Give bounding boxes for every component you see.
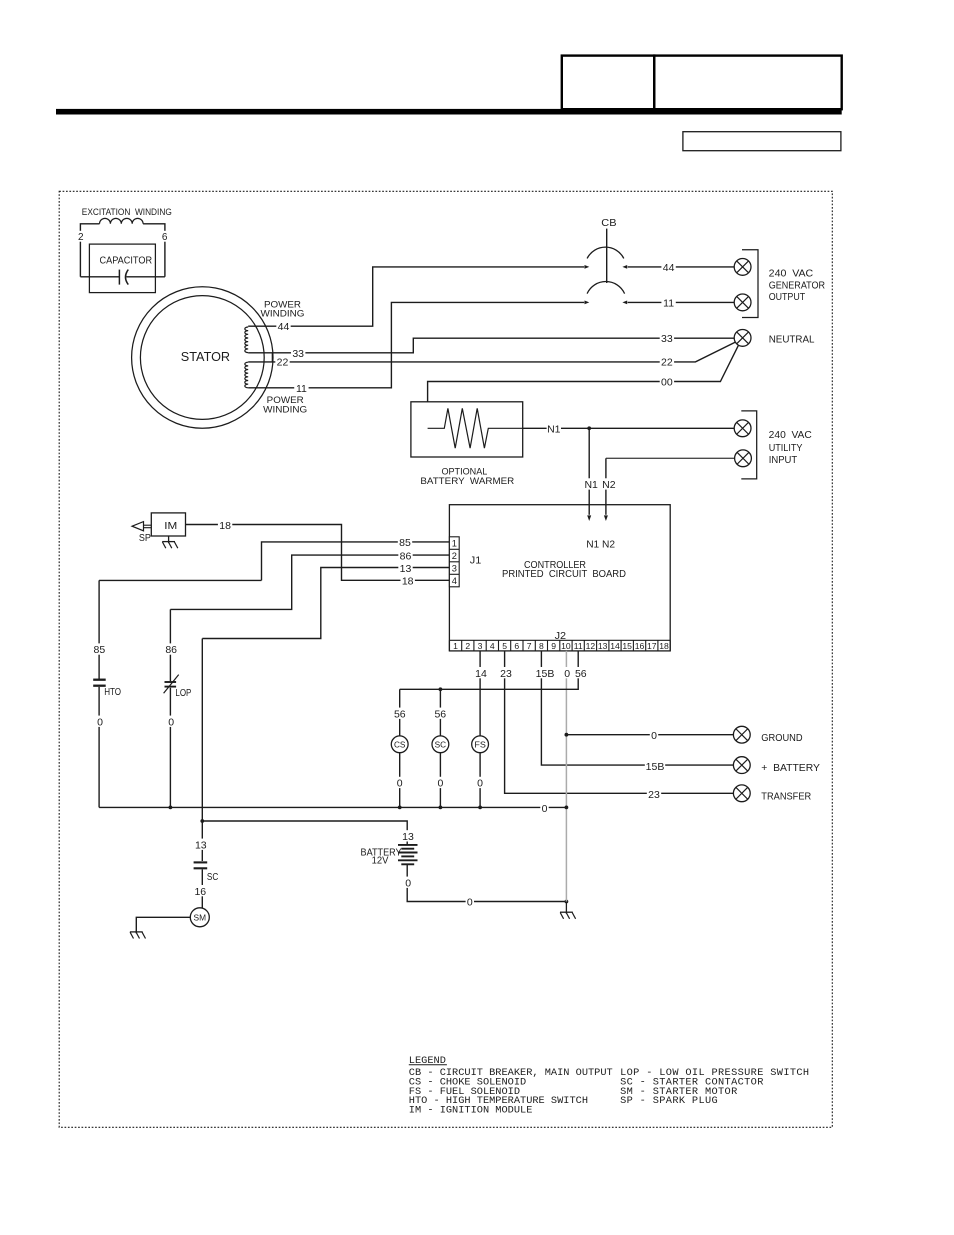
- wire N1 drop label: [584, 478, 598, 489]
- wire 16 to starter motor: [201, 869, 203, 908]
- svg-text:18: 18: [659, 641, 669, 651]
- terminal 240VAC gen line 11: [734, 294, 751, 311]
- svg-text:17: 17: [647, 641, 657, 651]
- svg-text:15B: 15B: [536, 668, 555, 680]
- svg-text:33: 33: [292, 348, 304, 360]
- svg-text:2: 2: [452, 551, 457, 561]
- wire N2 drop label: [602, 478, 616, 489]
- CB contact arrow 44 right: [622, 265, 627, 269]
- svg-text:OUTPUT: OUTPUT: [769, 292, 806, 303]
- wire 56 to SC: [439, 689, 441, 736]
- svg-text:85: 85: [399, 537, 411, 549]
- svg-text:16: 16: [635, 641, 645, 651]
- svg-text:0: 0: [168, 716, 174, 728]
- svg-text:8: 8: [539, 641, 544, 651]
- node 0 bus SC: [439, 806, 443, 810]
- svg-text:33: 33: [661, 333, 673, 345]
- svg-text:LEGEND: LEGEND: [409, 1055, 446, 1067]
- svg-text:15: 15: [622, 641, 632, 651]
- wire 0 bus label: [540, 802, 548, 813]
- wire 14 label: [474, 667, 488, 678]
- svg-text:0: 0: [405, 877, 411, 889]
- diagram dashed border: [59, 191, 832, 1127]
- wire N2 horizontal: [606, 457, 735, 459]
- fuel solenoid FS: [472, 736, 489, 753]
- wire 0 J2-10 gray drop: [565, 651, 567, 902]
- svg-text:N1: N1: [584, 479, 598, 491]
- svg-text:0: 0: [477, 778, 483, 790]
- node N1 junction: [587, 426, 591, 430]
- svg-text:240 VAC: 240 VAC: [769, 269, 814, 280]
- wire SM to ground: [136, 917, 190, 932]
- svg-text:J1: J1: [470, 554, 482, 566]
- terminal NEUTRAL: [734, 330, 751, 347]
- starter motor SM: [190, 908, 209, 927]
- wire 13 contact label: [194, 839, 208, 850]
- wire 18 label B: [401, 575, 415, 586]
- node 0 bus end: [565, 806, 569, 810]
- svg-text:IM: IM: [164, 521, 177, 532]
- connector J2: [449, 640, 670, 651]
- CB contact arrow 11 right: [622, 301, 627, 305]
- legend right column: [620, 1067, 809, 1107]
- wire 11 label A: [294, 382, 308, 393]
- svg-text:+ BATTERY: + BATTERY: [761, 763, 820, 774]
- svg-text:22: 22: [277, 357, 289, 369]
- svg-text:6: 6: [162, 232, 168, 243]
- svg-text:EXCITATION WINDING: EXCITATION WINDING: [82, 207, 172, 218]
- bracket utility input: [741, 411, 756, 479]
- switch LOP: [164, 675, 179, 694]
- wire LOP to 0 bus: [169, 688, 171, 808]
- svg-text:FS: FS: [474, 739, 486, 749]
- ground at SM: [130, 931, 146, 939]
- power winding coil top: [245, 327, 248, 353]
- wire 85 vertical label: [92, 643, 106, 654]
- wire 86 down to LOP: [169, 609, 171, 681]
- wire 15B label A: [535, 667, 555, 678]
- circuit breaker CB bottom contact arc: [587, 282, 625, 294]
- wire battery negative: [407, 864, 566, 901]
- wire HTO to 0 bus: [98, 687, 100, 808]
- svg-text:12: 12: [586, 641, 596, 651]
- arrow N1 into board: [587, 515, 591, 521]
- wire N1 drop: [588, 428, 590, 515]
- wire 23 label B: [647, 788, 661, 799]
- optional battery warmer box: [411, 402, 523, 457]
- stator outer circle: [132, 287, 273, 428]
- svg-text:0: 0: [564, 668, 570, 680]
- wire LOP 0 label: [167, 716, 175, 727]
- svg-text:13: 13: [402, 831, 414, 843]
- node 0 bus LOP: [169, 806, 173, 810]
- wire excitation right: [143, 224, 165, 277]
- wire 18 from ignition module: [186, 525, 450, 581]
- wire 56 to CS: [399, 689, 401, 736]
- spark plug SP arrow: [132, 522, 151, 531]
- svg-text:2: 2: [465, 641, 470, 651]
- svg-text:44: 44: [663, 262, 675, 274]
- svg-text:UTILITY: UTILITY: [769, 443, 803, 454]
- wire 13 battery label: [401, 830, 415, 841]
- wire CS 0 label: [396, 777, 404, 788]
- header rule: [56, 109, 842, 115]
- svg-text:0: 0: [437, 778, 443, 790]
- svg-text:00: 00: [661, 376, 673, 388]
- svg-text:13: 13: [598, 641, 608, 651]
- wire 44: [248, 267, 584, 326]
- svg-text:0: 0: [651, 730, 657, 742]
- capacitor C1: [119, 270, 128, 285]
- svg-text:11: 11: [663, 298, 674, 310]
- svg-text:TRANSFER: TRANSFER: [761, 791, 811, 802]
- choke solenoid CS: [391, 736, 408, 753]
- node 13 junction: [200, 819, 204, 823]
- wire 11 label B: [661, 297, 675, 308]
- wire SC 0 label: [436, 777, 444, 788]
- wire 11: [248, 302, 584, 387]
- svg-text:0: 0: [467, 896, 473, 908]
- terminal +BATTERY: [733, 757, 750, 774]
- legend left column: [409, 1067, 613, 1116]
- wire 15B J2-8: [541, 651, 733, 765]
- connector J1: [449, 537, 459, 587]
- wire 86 label: [398, 550, 412, 561]
- wire 13 label: [398, 562, 412, 573]
- wire battery 0 label B: [466, 895, 474, 906]
- svg-text:CAPACITOR: CAPACITOR: [100, 255, 153, 266]
- terminal 240VAC gen line 44: [734, 259, 751, 276]
- wire 33 label B: [660, 332, 674, 343]
- node 0 ground-wire junction: [565, 733, 569, 737]
- svg-text:56: 56: [394, 708, 406, 720]
- wire 14 J2-3 to FS: [479, 651, 481, 736]
- wire 0 bus horizontal: [99, 806, 566, 808]
- terminal 240VAC utility 2: [735, 450, 752, 467]
- svg-text:1: 1: [453, 641, 458, 651]
- controller printed circuit board U1: [449, 505, 670, 651]
- ground bottom right: [560, 902, 576, 919]
- svg-text:GROUND: GROUND: [761, 733, 802, 744]
- svg-text:7: 7: [527, 641, 532, 651]
- svg-text:0: 0: [542, 803, 548, 815]
- wire 13 down: [201, 639, 203, 862]
- svg-text:56: 56: [575, 668, 587, 680]
- svg-text:5: 5: [502, 641, 507, 651]
- svg-text:BATTERY WARMER: BATTERY WARMER: [420, 476, 514, 487]
- svg-text:CB: CB: [601, 217, 616, 229]
- wire N1 label: [547, 423, 561, 434]
- wire excitation left: [80, 224, 99, 277]
- wire 56 CS label: [393, 708, 407, 719]
- svg-text:85: 85: [94, 644, 106, 656]
- wire battery 0 label A: [404, 877, 412, 888]
- svg-text:56: 56: [434, 708, 446, 720]
- contact SC starter contactor: [194, 862, 208, 868]
- circuit breaker CB stem: [606, 229, 608, 283]
- svg-text:18: 18: [219, 520, 231, 532]
- svg-text:CS: CS: [394, 739, 406, 749]
- arrow N2 into board: [604, 515, 608, 521]
- svg-text:GENERATOR: GENERATOR: [769, 281, 825, 292]
- svg-text:11: 11: [574, 641, 583, 651]
- node 0 bus CS: [398, 806, 402, 810]
- wire 86 vertical label: [164, 643, 178, 654]
- svg-text:SM: SM: [194, 913, 207, 923]
- svg-text:11: 11: [296, 383, 307, 395]
- wire FS to 0 bus: [479, 753, 481, 808]
- wire 0 label B: [650, 729, 658, 740]
- svg-text:13: 13: [400, 563, 412, 575]
- svg-text:LOP: LOP: [175, 688, 191, 699]
- circuit breaker CB top contact arc: [587, 247, 624, 258]
- wire 56 J2-11: [400, 651, 579, 689]
- svg-text:N1: N1: [547, 423, 561, 435]
- svg-text:240 VAC: 240 VAC: [769, 430, 812, 441]
- wire 18 label A: [218, 519, 232, 530]
- svg-text:0: 0: [397, 778, 403, 790]
- wire 33 label A: [291, 347, 305, 358]
- wire N1: [523, 427, 735, 429]
- svg-text:23: 23: [500, 668, 512, 680]
- header box left: [562, 56, 654, 110]
- svg-text:1: 1: [452, 539, 457, 549]
- svg-text:PRINTED CIRCUIT BOARD: PRINTED CIRCUIT BOARD: [502, 569, 626, 580]
- terminal TRANSFER: [733, 785, 750, 802]
- pin 6 label: [161, 231, 169, 242]
- wire capacitor left: [80, 276, 119, 278]
- CB contact arrow 44 left: [585, 265, 590, 269]
- node 0 bus FS: [478, 806, 482, 810]
- svg-text:SC: SC: [207, 872, 218, 883]
- svg-text:N1 N2: N1 N2: [586, 539, 615, 551]
- wire 00 label: [660, 376, 674, 387]
- svg-text:14: 14: [475, 668, 487, 680]
- svg-text:2: 2: [78, 232, 84, 243]
- stator inner circle: [140, 296, 264, 420]
- svg-text:NEUTRAL: NEUTRAL: [769, 334, 815, 345]
- svg-text:16: 16: [194, 886, 206, 898]
- wire 33: [248, 338, 734, 353]
- ignition module IM: [151, 513, 185, 536]
- wire 22 label B: [660, 356, 674, 367]
- svg-text:15B: 15B: [646, 761, 665, 773]
- svg-text:WINDING: WINDING: [263, 404, 307, 415]
- wire CS to 0 bus: [399, 753, 401, 808]
- svg-text:13: 13: [195, 839, 207, 851]
- wire 56 SC label: [433, 708, 447, 719]
- svg-text:4: 4: [490, 641, 495, 651]
- svg-text:6: 6: [514, 641, 519, 651]
- bracket generator output: [742, 250, 758, 318]
- svg-text:86: 86: [400, 550, 412, 562]
- wire 0 to ground terminal: [566, 734, 733, 736]
- capacitor box: [89, 244, 155, 293]
- terminal GROUND: [733, 726, 750, 743]
- header box right: [654, 56, 842, 110]
- node 56 SC junction: [439, 687, 443, 691]
- resistor battery warmer: [428, 408, 523, 448]
- wire SC to 0 bus: [439, 753, 441, 808]
- inductor excitation winding: [100, 218, 144, 223]
- svg-text:18: 18: [402, 576, 414, 588]
- battery B1 12V: [398, 845, 418, 864]
- svg-text:10: 10: [561, 641, 571, 651]
- wire 13 to J1-3: [202, 568, 449, 639]
- winding series jog wire: [271, 353, 273, 362]
- ground under IM: [162, 536, 178, 548]
- wire 44 label A: [276, 320, 290, 331]
- svg-text:44: 44: [278, 321, 290, 333]
- wire 23 J2-5: [505, 651, 734, 793]
- wire N2 drop: [605, 458, 607, 515]
- wire capacitor right: [126, 276, 165, 278]
- svg-text:INPUT: INPUT: [769, 455, 798, 466]
- svg-text:14: 14: [610, 641, 620, 651]
- wire HTO 0 label: [96, 716, 104, 727]
- svg-text:22: 22: [661, 356, 673, 368]
- svg-text:3: 3: [478, 641, 483, 651]
- wire 44 output segment: [628, 266, 735, 268]
- starter contactor SC coil: [432, 736, 449, 753]
- svg-text:23: 23: [648, 789, 660, 801]
- svg-text:N2: N2: [602, 479, 616, 491]
- svg-text:86: 86: [165, 644, 177, 656]
- svg-text:4: 4: [452, 576, 457, 586]
- wire 86 to J1-2: [170, 555, 449, 609]
- svg-text:HTO: HTO: [104, 687, 121, 698]
- pin 2 label: [77, 231, 85, 242]
- wire 15B label B: [645, 760, 665, 771]
- terminal 240VAC utility 1: [734, 420, 751, 437]
- node battery ground junction: [565, 900, 569, 904]
- switch HTO: [93, 680, 106, 686]
- svg-text:0: 0: [97, 716, 103, 728]
- svg-text:12V: 12V: [372, 855, 389, 866]
- svg-text:IM - IGNITION MODULE: IM - IGNITION MODULE: [409, 1104, 533, 1116]
- svg-text:SP - SPARK PLUG: SP - SPARK PLUG: [620, 1095, 718, 1107]
- wire 22: [248, 342, 735, 362]
- wire 85 to J1-1: [99, 579, 261, 581]
- svg-text:WINDING: WINDING: [261, 309, 305, 320]
- wire 22 label A: [275, 356, 289, 367]
- svg-text:SC: SC: [435, 739, 447, 749]
- wire FS 0 label: [476, 777, 484, 788]
- wire 56 label A: [574, 667, 588, 678]
- wire 11 output segment: [628, 301, 735, 303]
- wire 85 label: [398, 536, 412, 547]
- wire 16 label: [193, 885, 207, 896]
- wire 85 down to HTO: [98, 580, 100, 679]
- wire 13 to battery: [202, 821, 407, 845]
- svg-text:3: 3: [452, 564, 457, 574]
- svg-text:SP: SP: [139, 533, 151, 544]
- power winding coil bottom: [245, 362, 248, 388]
- wire 23 label A: [499, 667, 513, 678]
- subtitle box: [683, 132, 841, 151]
- wire 00: [428, 346, 739, 402]
- svg-text:STATOR: STATOR: [181, 350, 230, 364]
- wire 0 label A: [563, 667, 571, 678]
- svg-text:9: 9: [551, 641, 556, 651]
- CB contact arrow 11 left: [585, 301, 590, 305]
- wire 44 label B: [661, 261, 675, 272]
